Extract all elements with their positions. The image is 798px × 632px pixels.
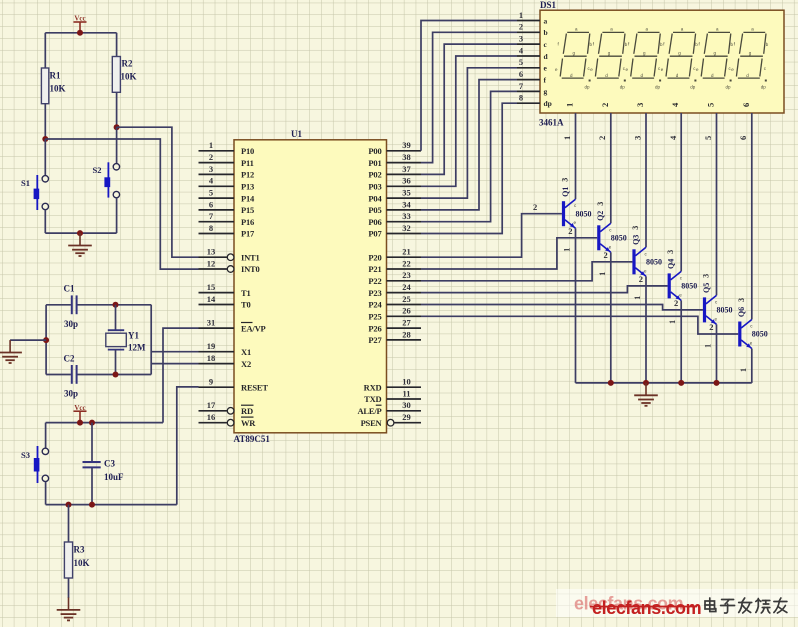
svg-text:4: 4 [668, 135, 678, 140]
7-seg digit 1 glyph [555, 27, 593, 90]
crystal Y1 [106, 330, 146, 352]
svg-text:34: 34 [402, 199, 411, 209]
node rail junction 2 [643, 380, 649, 386]
ground (switch rail) [68, 233, 92, 256]
pin 7 display segment g [517, 81, 548, 96]
svg-text:3: 3 [635, 103, 645, 107]
wire P20 to Q1 base [421, 214, 562, 258]
svg-text:R2: R2 [122, 59, 133, 69]
wire to X1 [151, 351, 198, 353]
svg-text:2: 2 [533, 202, 537, 212]
wire Vcc rail top [45, 32, 116, 34]
svg-text:31: 31 [207, 318, 216, 328]
svg-text:INT1: INT1 [241, 252, 260, 262]
wire display digit 6 to Q6 collector [751, 113, 753, 320]
wire R2 bottom lead [116, 92, 118, 127]
pin 11 TXD [364, 388, 421, 404]
svg-text:3: 3 [561, 178, 570, 182]
wire Q4 emitter down [680, 300, 682, 383]
wire xtal loop left side [45, 305, 47, 375]
svg-text:10K: 10K [74, 558, 90, 568]
pin 8 display segment dp [517, 93, 552, 108]
svg-text:P13: P13 [241, 182, 254, 192]
svg-text:C2: C2 [64, 354, 75, 364]
svg-text:P11: P11 [241, 158, 254, 168]
pin 6 display segment f [517, 69, 547, 84]
wire display digit 1 to Q1 collector [575, 113, 577, 199]
svg-text:3: 3 [666, 250, 675, 254]
svg-text:elecfans.com: elecfans.com [592, 598, 701, 618]
svg-text:28: 28 [402, 329, 411, 339]
wire P21 to Q2 base [421, 238, 597, 269]
wire to S1 [44, 139, 46, 176]
svg-text:25: 25 [402, 294, 411, 304]
svg-text:P07: P07 [368, 229, 382, 239]
wire R1 bottom lead [44, 104, 46, 139]
node XTAL top [113, 302, 119, 308]
pin 12 INT0 [199, 258, 260, 274]
watermark chinese characters [705, 598, 787, 613]
svg-text:2: 2 [568, 226, 572, 236]
transistor Q2 8050 [596, 202, 627, 276]
pin 38 P01 [368, 152, 421, 168]
pin 26 P25 [368, 306, 421, 322]
svg-text:2: 2 [709, 322, 713, 332]
svg-text:P21: P21 [368, 264, 381, 274]
svg-text:P23: P23 [368, 288, 381, 298]
7-seg digit 5 glyph [696, 27, 734, 90]
svg-text:6: 6 [519, 69, 523, 79]
wire Q2 emitter down [610, 252, 612, 383]
svg-text:X2: X2 [241, 359, 251, 369]
pin 4 display segment d [517, 45, 549, 60]
wire Y1 top lead [115, 305, 117, 330]
svg-text:3: 3 [519, 34, 523, 44]
svg-text:S2: S2 [93, 165, 102, 175]
svg-text:24: 24 [402, 282, 411, 292]
svg-text:27: 27 [402, 318, 411, 328]
svg-text:P16: P16 [241, 217, 254, 227]
wire P02 to display pin 3 [421, 44, 517, 174]
pin 1 display segment a [517, 10, 548, 25]
svg-text:8050: 8050 [717, 306, 733, 315]
svg-text:Q6: Q6 [737, 307, 746, 317]
node rail junction 3 [678, 380, 684, 386]
svg-text:P00: P00 [368, 146, 381, 156]
svg-text:12M: 12M [128, 343, 146, 353]
wire S3 top [45, 423, 47, 449]
svg-text:3: 3 [737, 298, 746, 302]
svg-text:PSEN: PSEN [361, 418, 383, 428]
pin 7 P16 [199, 211, 255, 227]
svg-text:1: 1 [598, 272, 607, 276]
svg-text:2: 2 [603, 250, 607, 260]
switch S3 [21, 446, 49, 483]
wire display digit 2 to Q2 collector [610, 113, 612, 223]
svg-text:8050: 8050 [681, 282, 697, 291]
pin 14 T0 [199, 294, 251, 310]
node XTAL bottom [113, 372, 119, 378]
op-amp U1 AT89C51 body [234, 129, 387, 444]
svg-text:1: 1 [563, 248, 572, 252]
svg-text:23: 23 [402, 270, 411, 280]
svg-text:U1: U1 [291, 129, 302, 139]
svg-text:38: 38 [402, 152, 411, 162]
svg-text:1: 1 [704, 344, 713, 348]
svg-text:P10: P10 [241, 146, 254, 156]
wire to X2 [151, 363, 198, 365]
svg-text:8050: 8050 [646, 257, 662, 266]
svg-text:8050: 8050 [611, 233, 627, 242]
pin 32 P07 [368, 223, 421, 239]
svg-text:1: 1 [668, 320, 677, 324]
svg-text:TXD: TXD [364, 394, 381, 404]
pin 8 P17 [199, 223, 256, 239]
wire C1 right to corner [78, 304, 152, 306]
wire C2 right to corner [78, 374, 152, 376]
svg-text:5: 5 [703, 136, 713, 140]
node rail junction 1 [608, 380, 614, 386]
svg-text:14: 14 [207, 294, 216, 304]
wire C3 bottom lead [91, 468, 93, 505]
wire P04 to display pin 5 [421, 68, 517, 198]
pin 3 display segment c [517, 34, 548, 49]
svg-text:S3: S3 [21, 450, 30, 460]
pin 28 P27 [368, 329, 421, 345]
pin 31 EA/VP [199, 318, 266, 334]
wire node to INT1 [117, 127, 199, 257]
pin 33 P06 [368, 211, 421, 227]
svg-text:RD: RD [241, 406, 253, 416]
wire P05 to display pin 6 [421, 80, 517, 210]
svg-text:30: 30 [402, 400, 411, 410]
wire reset Vcc rail [46, 422, 163, 424]
capacitor C2 [64, 354, 79, 399]
wire P24 to Q5 base [421, 305, 703, 310]
svg-text:11: 11 [402, 388, 410, 398]
svg-text:30p: 30p [64, 319, 78, 329]
7-seg digit 2 glyph [590, 27, 628, 90]
svg-text:39: 39 [402, 140, 411, 150]
svg-text:19: 19 [207, 341, 216, 351]
svg-text:8: 8 [519, 93, 523, 103]
pin 27 P26 [368, 318, 421, 334]
svg-text:9: 9 [209, 377, 213, 387]
power VCC top [74, 15, 87, 33]
wire S1 bottom [44, 210, 46, 233]
wire to S2 [116, 127, 118, 164]
svg-text:3: 3 [209, 164, 213, 174]
pin 37 P02 [368, 164, 421, 180]
wire Q5 emitter down [716, 324, 718, 383]
pin 2 P11 [199, 152, 254, 168]
pin 35 P04 [368, 188, 421, 204]
wire xtal loop right side [150, 305, 152, 375]
pin 10 RXD [364, 377, 421, 393]
wire emitter common rail [576, 382, 752, 384]
svg-text:3: 3 [596, 202, 605, 206]
svg-text:4: 4 [670, 102, 680, 107]
svg-text:1: 1 [633, 296, 642, 300]
resistor R1 [41, 68, 65, 104]
svg-text:RXD: RXD [364, 382, 382, 392]
svg-text:C1: C1 [64, 284, 75, 294]
svg-text:S1: S1 [21, 178, 30, 188]
transistor Q6 8050 [737, 298, 768, 372]
svg-text:2: 2 [600, 103, 610, 107]
wire display digit 5 to Q5 collector [716, 113, 718, 295]
wire RESET to RC node [177, 387, 199, 505]
svg-text:R1: R1 [50, 71, 61, 81]
wire reset bottom rail [46, 504, 177, 506]
transistor Q1 8050 [561, 178, 592, 252]
pin 30 ALE/P [357, 400, 421, 416]
pin 24 P23 [368, 282, 421, 298]
svg-text:13: 13 [207, 247, 216, 257]
wire P23 to Q4 base [421, 286, 668, 293]
wire P03 to display pin 4 [421, 56, 517, 186]
wire P22 to Q3 base [421, 262, 632, 281]
svg-text:b: b [544, 28, 548, 37]
capacitor C3 [83, 459, 125, 483]
svg-text:WR: WR [241, 418, 256, 428]
wire P01 to display pin 2 [421, 32, 517, 162]
svg-text:29: 29 [402, 412, 411, 422]
pin 22 P21 [368, 258, 421, 274]
switch S2 [93, 162, 120, 198]
node rail junction 4 [714, 380, 720, 386]
svg-text:37: 37 [402, 164, 411, 174]
transistor Q4 8050 [666, 250, 697, 324]
svg-text:RESET: RESET [241, 382, 268, 392]
watermark band [556, 589, 798, 617]
svg-text:P01: P01 [368, 158, 381, 168]
svg-text:32: 32 [402, 223, 411, 233]
svg-text:36: 36 [402, 176, 411, 186]
switch S1 [21, 175, 49, 210]
wire P07 to display pin 8 [421, 103, 517, 233]
7-seg display DS1 3461A body [539, 0, 784, 128]
svg-text:12: 12 [207, 258, 216, 268]
pin 29 PSEN [361, 412, 421, 428]
watermark logo [590, 598, 701, 618]
svg-text:P12: P12 [241, 170, 254, 180]
svg-text:8050: 8050 [576, 209, 592, 218]
svg-text:1: 1 [519, 10, 523, 20]
svg-text:1: 1 [739, 368, 748, 372]
pin 19 X1 [199, 341, 252, 357]
ground (crystal) [0, 340, 22, 363]
svg-text:5: 5 [209, 188, 213, 198]
svg-text:Q1: Q1 [561, 187, 570, 197]
svg-text:26: 26 [402, 306, 411, 316]
svg-text:2: 2 [519, 22, 523, 32]
pin 5 P14 [199, 188, 256, 204]
node C3 bottom [89, 502, 95, 508]
node Vcc junction [77, 30, 83, 36]
svg-text:2: 2 [674, 298, 678, 308]
node switches common [77, 230, 83, 236]
svg-text:3: 3 [633, 136, 643, 140]
svg-text:P06: P06 [368, 217, 381, 227]
wire C3 top lead [91, 423, 93, 462]
wire C2 left [46, 374, 71, 376]
transistor Q5 8050 [702, 274, 733, 348]
svg-text:X1: X1 [241, 347, 251, 357]
svg-text:5: 5 [706, 103, 716, 107]
svg-text:16: 16 [207, 412, 216, 422]
svg-text:5: 5 [519, 57, 523, 67]
svg-text:22: 22 [402, 258, 411, 268]
svg-text:Q5: Q5 [702, 283, 711, 293]
power VCC reset [74, 404, 87, 423]
svg-text:6: 6 [741, 103, 751, 107]
svg-text:10K: 10K [121, 72, 137, 82]
pin 3 P12 [199, 164, 255, 180]
svg-text:P04: P04 [368, 193, 382, 203]
pin 17 RD [199, 400, 254, 416]
pin 36 P03 [368, 176, 421, 192]
svg-text:P03: P03 [368, 182, 381, 192]
svg-text:Q4: Q4 [667, 259, 676, 269]
wire Q6 emitter down [751, 349, 753, 383]
svg-text:21: 21 [402, 247, 411, 257]
wire EA/VP to Vcc rail [163, 328, 199, 423]
svg-text:DS1: DS1 [540, 0, 557, 10]
node R1/S1 [42, 136, 48, 142]
svg-text:2: 2 [597, 136, 607, 140]
capacitor C1 [64, 284, 79, 330]
pin 6 P15 [199, 199, 255, 215]
wire P06 to display pin 7 [421, 91, 517, 221]
svg-text:P20: P20 [368, 252, 381, 262]
svg-text:3: 3 [631, 226, 640, 230]
svg-text:2: 2 [209, 152, 213, 162]
7-seg digit 6 glyph [731, 27, 769, 90]
svg-text:a: a [544, 16, 548, 25]
wire S3 bottom [45, 482, 47, 505]
svg-text:10uF: 10uF [104, 472, 124, 482]
svg-text:1: 1 [565, 103, 575, 107]
transistor Q3 8050 [631, 226, 662, 300]
svg-text:P02: P02 [368, 170, 381, 180]
svg-text:g: g [544, 87, 548, 96]
ground (R3) [57, 598, 81, 621]
wire P25 to Q6 base [421, 316, 738, 334]
svg-text:33: 33 [402, 211, 411, 221]
svg-text:1: 1 [209, 140, 213, 150]
svg-text:17: 17 [207, 400, 216, 410]
svg-text:EA/VP: EA/VP [241, 323, 266, 333]
svg-text:3461A: 3461A [539, 118, 564, 128]
pin 18 X2 [199, 353, 252, 369]
wire S1/S2 common rail [45, 232, 116, 234]
svg-text:P25: P25 [368, 312, 381, 322]
svg-text:6: 6 [209, 199, 213, 209]
svg-text:R3: R3 [74, 545, 85, 555]
svg-text:dp: dp [544, 99, 552, 108]
pin 5 display segment e [517, 57, 548, 72]
pin 39 P00 [368, 140, 421, 156]
svg-text:3: 3 [702, 274, 711, 278]
wire S2 bottom [116, 198, 118, 233]
svg-text:T0: T0 [241, 300, 251, 310]
svg-text:INT0: INT0 [241, 264, 260, 274]
svg-text:P24: P24 [368, 300, 382, 310]
wire R3 top lead [68, 505, 70, 542]
pin 34 P05 [368, 199, 421, 215]
wire P00 to display pin 1 [421, 21, 517, 151]
pin 25 P24 [368, 294, 421, 310]
wire Y1 bottom lead [115, 350, 117, 375]
7-seg digit 4 glyph [661, 27, 699, 90]
pin 15 T1 [199, 282, 251, 298]
node R3 top [66, 502, 72, 508]
pin 21 P20 [368, 247, 421, 263]
wire to ground [10, 339, 46, 341]
wire Q3 emitter down [645, 276, 647, 383]
wire node to INT0 [45, 139, 198, 269]
svg-text:Y1: Y1 [128, 331, 139, 341]
svg-text:8050: 8050 [752, 330, 768, 339]
svg-text:C3: C3 [104, 459, 115, 469]
svg-text:P26: P26 [368, 323, 381, 333]
pin 1 P10 [199, 140, 255, 156]
pin 2 display segment b [517, 22, 548, 37]
svg-text:P22: P22 [368, 276, 381, 286]
wire R1 top lead [44, 33, 46, 68]
svg-text:2: 2 [639, 274, 643, 284]
resistor R2 [112, 57, 136, 93]
svg-text:10K: 10K [50, 84, 66, 94]
svg-text:AT89C51: AT89C51 [234, 434, 271, 444]
svg-text:Q3: Q3 [631, 235, 640, 245]
pin 23 P22 [368, 270, 421, 286]
svg-text:Q2: Q2 [596, 211, 605, 221]
svg-text:1: 1 [562, 136, 572, 140]
7-seg digit 3 glyph [626, 27, 664, 90]
resistor R3 [64, 542, 89, 578]
node ground tap [43, 337, 49, 343]
pin 4 P13 [199, 176, 255, 192]
svg-text:35: 35 [402, 188, 411, 198]
svg-text:18: 18 [207, 353, 216, 363]
wire display digit 3 to Q3 collector [645, 113, 647, 247]
wire display digit 4 to Q4 collector [680, 113, 682, 271]
svg-text:ALE/P: ALE/P [357, 406, 381, 416]
svg-text:6: 6 [738, 136, 748, 140]
wire C1 left [46, 304, 71, 306]
pin 9 RESET [199, 377, 269, 393]
svg-text:P17: P17 [241, 229, 255, 239]
wire R3 bottom lead [68, 578, 70, 598]
svg-text:15: 15 [207, 282, 216, 292]
wire R2 top lead [116, 33, 118, 57]
svg-text:P14: P14 [241, 193, 255, 203]
wire Q1 emitter down [575, 228, 577, 383]
node R2/S2 [114, 124, 120, 130]
svg-text:30p: 30p [64, 389, 78, 399]
pin 16 WR [199, 412, 257, 428]
ground (emitter rail) [634, 383, 658, 406]
node Vcc stem [77, 420, 83, 426]
pin 13 INT1 [199, 247, 260, 263]
svg-text:P15: P15 [241, 205, 254, 215]
svg-text:P27: P27 [368, 335, 382, 345]
svg-text:P05: P05 [368, 205, 381, 215]
svg-text:8: 8 [209, 223, 213, 233]
svg-text:T1: T1 [241, 288, 251, 298]
